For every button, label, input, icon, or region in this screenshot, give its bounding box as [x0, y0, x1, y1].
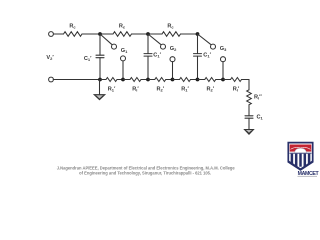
node B4 bottom rail junction: [171, 78, 175, 82]
resistor R1' (bottom rail): [100, 79, 106, 81]
wire bottom rail from terminal to node B1: [53, 79, 100, 81]
svg-text:C1′: C1′: [203, 53, 211, 59]
switch G1 upper contact: [112, 44, 117, 49]
svg-text:R1′: R1′: [181, 87, 189, 93]
resistor Ri'' (vertical): [247, 90, 252, 105]
svg-text:G2: G2: [170, 46, 177, 52]
node N3 top rail junction: [196, 32, 200, 36]
svg-text:R1′: R1′: [108, 87, 116, 93]
svg-text:Ri′: Ri′: [132, 87, 139, 93]
capacitor C1' plates: [96, 55, 104, 58]
terminal bottom-left input: [49, 77, 54, 82]
svg-text:Ri″: Ri″: [254, 95, 262, 101]
switch G3 lower contact: [221, 57, 226, 62]
MAMCET college logo shield outline: [288, 143, 312, 170]
wire top rail segment 3: [132, 33, 163, 35]
switch G1 lower wire to bottom rail: [122, 61, 124, 80]
node B1 bottom rail junction: [98, 78, 102, 82]
wire top rail segment 4: [181, 33, 198, 35]
svg-text:Rc: Rc: [119, 24, 126, 30]
resistor Ri' (bottom rail): [123, 79, 130, 81]
resistor R1' (bottom rail): [173, 79, 180, 81]
resistor R2' (bottom rail): [148, 79, 155, 81]
resistor R2' (bottom rail): [198, 79, 205, 81]
terminal top-left input: [49, 32, 54, 37]
ground at node B1: [99, 80, 101, 95]
logo caption line: [298, 175, 318, 178]
switch G2 upper contact: [161, 44, 166, 49]
capacitor C1 plates: [245, 116, 253, 118]
node N2 top rail junction: [146, 32, 150, 36]
svg-text:Rc: Rc: [69, 24, 76, 30]
capacitor C1' branch wire lower: [99, 58, 101, 80]
svg-text:C1′: C1′: [84, 56, 92, 62]
svg-text:Ri′: Ri′: [233, 87, 240, 93]
logo red banner: [290, 145, 312, 152]
switch G1 lower contact: [121, 56, 126, 61]
svg-text:V2′: V2′: [46, 55, 54, 61]
capacitor C2' branch wire lower: [147, 56, 149, 79]
ground below C1: [248, 118, 250, 129]
svg-text:of Engineering and Technology,: of Engineering and Technology, Siruganur…: [79, 171, 211, 176]
wire bottom rail right corner: [248, 80, 250, 90]
svg-text:R2′: R2′: [156, 87, 164, 93]
switch G1 lever: [100, 34, 112, 45]
capacitor C1' branch wire upper: [99, 34, 101, 55]
wire to capacitor C1: [248, 105, 250, 116]
wire top rail segment 2: [82, 33, 113, 35]
node B5 bottom rail junction: [196, 78, 200, 82]
switch G3 lower wire to bottom rail: [222, 62, 224, 80]
resistor Rc (third): [162, 32, 181, 37]
capacitor C2' branch wire upper: [147, 34, 149, 54]
node B3 bottom rail junction: [146, 78, 150, 82]
logo dome: [295, 148, 307, 153]
node B6 bottom rail junction: [221, 78, 225, 82]
switch G2 lower contact: [170, 57, 175, 62]
logo architrave line: [290, 152, 311, 154]
svg-text:G3: G3: [220, 46, 227, 52]
capacitor C3' branch wire lower: [197, 56, 199, 79]
resistor Rc (second): [113, 32, 132, 37]
switch G3 upper contact: [211, 44, 216, 49]
switch G3 lever: [198, 34, 212, 45]
svg-text:C1: C1: [257, 115, 264, 121]
node B2 bottom rail junction: [121, 78, 125, 82]
svg-text:G1: G1: [121, 48, 128, 54]
logo bottom V border: [288, 161, 313, 169]
svg-text:C1′: C1′: [153, 53, 161, 59]
svg-text:R2′: R2′: [206, 87, 214, 93]
svg-text:Rc: Rc: [167, 24, 174, 30]
resistor Ri' (bottom rail): [223, 79, 231, 81]
capacitor C3' branch wire upper: [197, 34, 199, 54]
node N1 top rail junction: [98, 32, 102, 36]
resistor Rc (first): [64, 32, 83, 37]
logo pillars: [291, 154, 294, 167]
switch G2 lower wire to bottom rail: [172, 62, 174, 80]
wire top rail segment 1: [53, 33, 63, 35]
capacitor C3' plates: [194, 54, 202, 57]
switch G2 lever: [148, 34, 161, 45]
capacitor C2' plates: [144, 54, 152, 57]
